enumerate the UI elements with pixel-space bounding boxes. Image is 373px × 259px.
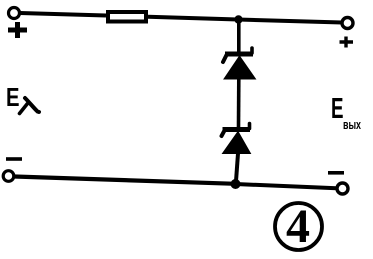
wire node A down to zener D1	[237, 20, 241, 53]
plus label top-left	[8, 22, 27, 38]
wire top from terminal to resistor	[20, 13, 106, 16]
zener D1 triangle	[224, 56, 256, 79]
zener D2 triangle	[223, 132, 251, 154]
plus label top-right	[340, 37, 354, 48]
node A (top junction)	[234, 15, 242, 23]
wire D2 down to node B	[236, 154, 238, 185]
zener D2 cathode bar	[223, 127, 251, 132]
wire D1 to D2	[237, 79, 241, 127]
terminal top-left	[9, 8, 20, 19]
svg-text:E: E	[6, 82, 20, 112]
wire bottom from node B to right terminal	[236, 184, 337, 188]
resistor	[108, 12, 146, 22]
node B (bottom junction)	[231, 179, 241, 189]
zener D1 cathode bar	[225, 52, 253, 57]
figure number circle	[275, 203, 322, 250]
svg-text:4: 4	[286, 200, 310, 253]
svg-text:E: E	[331, 93, 344, 125]
wire bottom from left terminal to node B	[15, 177, 236, 184]
label E input subscript	[25, 98, 39, 112]
wire top from node A to right terminal	[238, 20, 342, 23]
terminal top-right	[342, 18, 353, 29]
svg-text:вых: вых	[343, 117, 362, 132]
minus label bottom-left	[6, 157, 22, 161]
minus label bottom-right	[328, 171, 344, 175]
terminal bottom-left	[3, 171, 14, 182]
wire top from resistor to node A	[148, 17, 238, 20]
terminal bottom-right	[337, 183, 348, 194]
